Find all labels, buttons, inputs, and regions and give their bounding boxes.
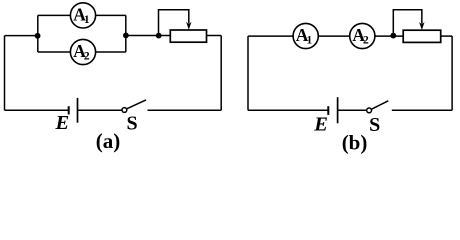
svg-text:(a): (a)	[96, 129, 121, 153]
svg-text:S: S	[127, 113, 138, 135]
wire: circuit (b) rheostat to right corner	[441, 35, 452, 37]
ammeter A2 (circuit a)	[70, 39, 95, 64]
switch S (circuit b) lever	[371, 101, 388, 110]
wire: circuit (b) A2 to rheostat	[375, 35, 403, 37]
wire: circuit (a) A1 branch left	[38, 14, 71, 16]
wire: circuit (b) rheostat slider link	[393, 10, 422, 36]
rheostat R (circuit b) slider arrowhead	[419, 22, 424, 30]
svg-text:(b): (b)	[342, 131, 368, 155]
wire: circuit (a) A2 branch left	[38, 51, 71, 53]
svg-text:E: E	[313, 114, 328, 136]
wire: circuit (a) left branch connector vertical	[37, 15, 39, 52]
wire: circuit (a) bottom right horizontal	[148, 109, 222, 111]
wire: circuit (a) bottom left horizontal	[5, 109, 69, 111]
wire: circuit (a) battery to switch	[78, 109, 123, 111]
switch S (circuit b) pivot	[367, 108, 372, 113]
battery E (circuit b) short plate	[327, 106, 329, 115]
wire: circuit (a) right branch connector vertical	[125, 15, 127, 52]
junction node: circuit (a) rheostat slider tap	[156, 33, 162, 39]
wire: circuit (a) trunk to rheostat	[126, 35, 171, 37]
rheostat R (circuit a) slider arrowhead	[186, 22, 191, 30]
wire: circuit (a) A2 branch right	[96, 51, 126, 53]
rheostat R (circuit a) body	[170, 30, 206, 42]
switch S (circuit a) lever	[127, 100, 146, 109]
battery E (circuit a) short plate	[68, 106, 70, 114]
junction node: circuit (b) rheostat slider tap	[390, 33, 396, 39]
wire: circuit (b) left vertical	[247, 36, 249, 110]
wire: circuit (a) left vertical	[4, 36, 6, 111]
wire: circuit (b) right vertical	[451, 36, 453, 110]
wire: circuit (b) between A1 and A2	[318, 35, 349, 37]
wire: circuit (a) rheostat to right corner	[207, 35, 222, 37]
battery E (circuit b) long plate	[337, 97, 339, 123]
wire: circuit (b) battery to switch	[338, 109, 367, 111]
svg-text:E: E	[55, 112, 70, 134]
ammeter A1 (circuit a)	[70, 3, 95, 28]
wire: circuit (a) A1 branch right	[96, 14, 126, 16]
junction node: circuit (a) right merge	[123, 33, 129, 39]
ammeter A1 (circuit b)	[293, 23, 318, 48]
junction node: circuit (a) left split	[35, 33, 41, 39]
ammeter A2 (circuit b)	[350, 23, 375, 48]
wire: circuit (a) rheostat slider link	[159, 10, 189, 36]
wire: circuit (a) top-left horizontal to junction	[5, 35, 38, 37]
wire: circuit (b) bottom left horizontal	[248, 109, 328, 111]
svg-text:S: S	[369, 114, 380, 136]
rheostat R (circuit b) body	[403, 30, 441, 42]
wire: circuit (a) right vertical	[220, 36, 222, 111]
switch S (circuit a) pivot	[122, 108, 127, 113]
wire: circuit (b) top-left horizontal	[248, 35, 293, 37]
wire: circuit (b) bottom right horizontal	[392, 109, 452, 111]
battery E (circuit a) long plate	[77, 98, 79, 123]
